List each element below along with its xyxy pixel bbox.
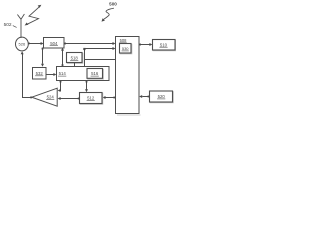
RF lightning arrow bbox=[25, 5, 42, 26]
wire 518 to 514 stub bbox=[74, 63, 76, 67]
svg-text:512: 512 bbox=[87, 96, 95, 101]
box 508 bbox=[116, 37, 141, 116]
svg-text:500: 500 bbox=[109, 1, 117, 6]
box 512 bbox=[80, 93, 103, 105]
svg-text:520: 520 bbox=[158, 94, 166, 99]
svg-text:504: 504 bbox=[50, 41, 58, 46]
wire 512 to 524 bbox=[58, 97, 80, 100]
svg-text:532: 532 bbox=[36, 71, 44, 76]
wire 508 to 510 bbox=[139, 43, 152, 46]
box 518 bbox=[67, 53, 83, 64]
wire 532 to 514 bbox=[46, 73, 56, 76]
svg-text:516: 516 bbox=[91, 71, 99, 76]
svg-text:508: 508 bbox=[120, 38, 128, 43]
svg-text:510: 510 bbox=[160, 42, 168, 47]
label 500 bbox=[109, 1, 117, 6]
antenna bbox=[17, 14, 24, 38]
wire 514 to 504 (up arrow) bbox=[61, 48, 64, 66]
wire 504 to 532 (down arrow) bbox=[41, 48, 44, 67]
box 514 bbox=[57, 67, 110, 81]
svg-text:530: 530 bbox=[122, 46, 129, 51]
box 510 bbox=[153, 40, 176, 51]
wire 514 to 524 control bbox=[58, 81, 62, 93]
svg-text:524: 524 bbox=[47, 94, 55, 99]
svg-text:514: 514 bbox=[59, 71, 67, 76]
leader line 502 bbox=[13, 26, 17, 28]
junction vertical 516 up bbox=[83, 48, 85, 67]
circulator 526 bbox=[16, 37, 29, 51]
wire Q to 508 bbox=[85, 59, 116, 61]
wire 514 to 512 (down arrow) bbox=[85, 81, 88, 93]
box 532 bbox=[33, 68, 47, 80]
box 504 bbox=[44, 38, 65, 49]
box 516 inside 514 bbox=[87, 69, 103, 80]
wire 504 to 508 bbox=[64, 42, 116, 45]
wire 524 to 526 bbox=[21, 51, 32, 98]
svg-text:526: 526 bbox=[19, 42, 26, 47]
wire 520 to 508 bbox=[139, 95, 149, 98]
wire 508 to 512 bbox=[103, 96, 116, 99]
label 502 bbox=[4, 22, 12, 28]
wire 526 to 504 bbox=[28, 42, 44, 45]
box 530 inside 508 bbox=[120, 44, 132, 54]
svg-text:502: 502 bbox=[4, 22, 12, 28]
amplifier 524 bbox=[32, 88, 57, 106]
svg-text:518: 518 bbox=[71, 55, 79, 60]
wire I to 508 bbox=[85, 47, 116, 50]
box 520 bbox=[150, 91, 174, 103]
leader squiggle 500 bbox=[102, 8, 114, 21]
